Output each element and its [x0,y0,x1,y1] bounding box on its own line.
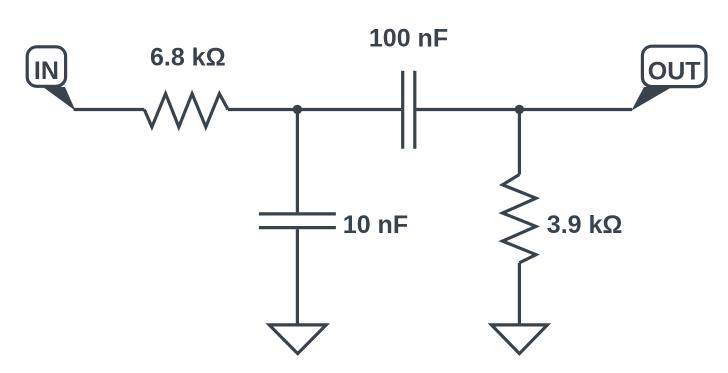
wire node B to OUT [519,108,632,111]
capacitor C2 10nF plates [259,214,336,228]
ground 2 symbol [491,325,547,354]
wire node A down to C2 [296,110,299,213]
svg-text:10 nF: 10 nF [343,211,408,239]
svg-text:IN: IN [34,57,59,85]
svg-text:OUT: OUT [648,58,701,86]
wire R1 to node A [228,108,297,111]
wire R2 to ground 2 [518,263,521,325]
wire node B down to R2 [518,110,521,175]
node A junction dot [293,105,302,114]
svg-text:100 nF: 100 nF [369,25,448,53]
net label IN pointer [43,87,76,111]
ground 1 symbol [269,325,326,354]
svg-text:3.9 kΩ: 3.9 kΩ [547,211,623,239]
resistor R1 6.8k zigzag [144,94,228,127]
net label OUT pointer [631,87,672,111]
capacitor C1 100nF plates [403,71,415,149]
net label OUT box [642,46,706,86]
net label IN box [27,47,65,87]
svg-text:6.8 kΩ: 6.8 kΩ [150,44,226,72]
wire C2 to ground 1 [296,229,299,324]
node B junction dot [515,105,524,114]
wire C1 to node B [416,108,519,111]
resistor R2 3.9k zigzag [503,175,537,263]
wire IN to R1 [74,108,145,111]
wire node A to C1 [297,108,401,111]
